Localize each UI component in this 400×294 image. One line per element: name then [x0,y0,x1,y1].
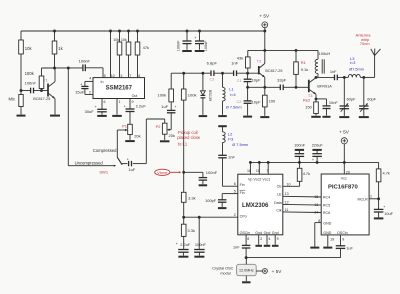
resistor Re2 150 [303,97,318,115]
capacitor 10uF MCLR [374,199,394,218]
pin 16 [314,203,318,207]
inductor L2 pickup [223,126,248,155]
svg-text:3: 3 [120,74,122,78]
svg-text:100nF: 100nF [294,142,306,147]
resistor 4.7k MCLR pullup [376,162,390,198]
svg-text:100: 100 [269,99,276,104]
svg-text:T2: T2 [257,58,262,63]
svg-text:12.0MHz: 12.0MHz [239,269,254,273]
svg-text:100k: 100k [158,93,167,98]
pin 5 [104,74,106,78]
svg-text:4.7k: 4.7k [303,171,310,176]
IC U3 PIC16F870 box [321,174,369,235]
ground crystal module [242,281,251,283]
svg-text:PIC16F870: PIC16F870 [328,184,359,190]
svg-text:Fin: Fin [240,191,245,195]
capacitor trimmer 60pF a [340,77,356,116]
svg-text:100nF: 100nF [177,40,181,51]
junction uncompressed tap [67,67,70,70]
svg-text:1nF: 1nF [330,69,337,74]
junction rail r10k a [118,30,121,33]
pin 15 [314,195,318,199]
wire Vp pin16 [249,162,251,174]
svg-text:Ø 7.5mm: Ø 7.5mm [232,143,248,147]
ground Vtune cap [199,184,208,186]
svg-text:2.2uF: 2.2uF [136,103,147,108]
wire pin1 to ground [116,99,118,115]
svg-text:GND: GND [323,221,331,225]
wire PIC Vcc pin20 [343,162,345,174]
wire Vcc2 pin15 [258,162,260,174]
junction base bias [40,89,43,92]
wire osc distribution [246,257,340,259]
svg-text:100uF: 100uF [204,40,208,51]
antenna whip [356,33,381,56]
svg-text:15uF: 15uF [75,90,85,95]
svg-text:Pickup coil: Pickup coil [178,130,198,135]
svg-text:P1: P1 [122,123,128,128]
svg-text:Uncompressed: Uncompressed [75,160,104,165]
resistor 47k pin8 [135,31,149,78]
transistor T1 BC817-25 [33,68,55,115]
svg-text:1nF: 1nF [231,60,238,65]
svg-text:L1: L1 [229,87,234,92]
svg-text:3.3k: 3.3k [188,196,196,201]
svg-text:4.7k: 4.7k [383,171,390,176]
ground rail cap2 [195,50,205,52]
svg-text:5: 5 [104,74,106,78]
svg-text:16: 16 [314,203,318,207]
capacitor 10nF emitter bypass [316,99,338,116]
svg-text:9: 9 [342,238,344,242]
junction rail cap1 [186,30,189,33]
resistor 10k pin3 [113,31,122,78]
ground 100pF [218,207,227,209]
svg-text:30uF: 30uF [85,109,95,114]
capacitor 30uF pin6 [85,99,107,115]
svg-text:+ 5V: + 5V [259,14,270,19]
svg-text:100nF: 100nF [79,58,91,63]
junction emitter node [246,86,249,89]
pin 7 [129,74,131,78]
junction rail r10k b [127,30,130,33]
transistor T2 BC817-25 [257,50,283,87]
svg-text:19: 19 [330,238,334,242]
svg-text:Out: Out [132,94,138,98]
svg-text:8: 8 [138,74,140,78]
svg-text:t=3: t=3 [350,61,355,65]
pin 7 [266,169,268,173]
wire CPo [184,216,238,218]
pin 4 [89,76,91,80]
svg-text:Fin: Fin [240,183,245,187]
resistor 4.7k CE pullup [297,162,310,186]
wire Fin pin5 [222,194,238,200]
ground varactor [199,115,208,117]
resistor 100k modulation [158,73,174,102]
svg-text:C2: C2 [236,100,241,104]
power +5V crystal [262,269,282,274]
inductor 100uH choke [315,50,330,77]
junction MCLR [377,197,380,200]
svg-text:10k: 10k [121,38,127,42]
junction rail r47k [136,30,139,33]
junction rail pic cap1 [298,161,301,164]
resistor 3.3k loop filter upper [181,192,195,217]
svg-text:70cm: 70cm [360,41,370,46]
svg-text:Ø 7.5mm: Ø 7.5mm [226,106,242,110]
capacitor C4 1nF osc coupling [231,60,241,83]
pin 5 [234,190,236,194]
svg-text:T1: T1 [43,77,48,82]
wire mic to cap [21,90,31,92]
capacitor 1nF output [330,69,337,80]
capacitor 100uF rail decoupling [194,31,208,51]
svg-text:CE: CE [277,184,283,188]
svg-text:1nF: 1nF [228,155,235,160]
capacitor 2.2uF loop filter [176,242,191,256]
junction rail pic cap2 [316,161,319,164]
svg-text:Data: Data [274,201,282,205]
wire Clk to RC6 [283,211,321,214]
svg-text:C1: C1 [237,79,242,83]
microphone Mic [9,91,24,115]
pin 2 [234,213,236,217]
pin 8 gnd [318,219,320,223]
svg-text:10uF: 10uF [384,211,393,216]
ground P1 [125,140,135,142]
wire pin10 from rail [110,31,112,78]
junction top rail / 1k [53,30,56,33]
note crystal osc [212,266,233,275]
capacitor trimmer 60pF b [359,77,377,116]
wire cap to P2 top [133,119,165,164]
junction T2 emitter resistor [263,86,266,89]
svg-text:t=3: t=3 [228,138,233,142]
svg-text:SW1: SW1 [99,170,108,175]
wire Gnd pin2 [258,235,260,245]
svg-text:11: 11 [285,208,289,212]
svg-text:2: 2 [234,213,236,217]
inductor L3 output filter [348,56,364,77]
svg-text:10nF: 10nF [329,100,338,105]
pin 4 gnd [268,237,270,241]
diode D1 varactor BB139 [201,73,212,115]
oscillator crystal module 12.0MHz [237,258,263,276]
junction mic node [20,89,23,92]
svg-text:2: 2 [89,91,91,95]
wire Data to RC5 [283,203,321,206]
svg-text:GND: GND [323,231,331,235]
svg-text:to L1: to L1 [178,141,188,146]
wire 33pF to T3 base [283,86,309,88]
svg-text:RC6: RC6 [323,211,330,215]
switch SW1 compressed/uncompressed [75,148,123,174]
svg-text:modul: modul [220,271,230,275]
capacitor 100nF PIC decoupling [294,142,306,162]
wire MCLR [369,198,379,200]
wire module gnd [245,276,247,282]
svg-text:10pF: 10pF [252,99,261,104]
wire Gnd pin9 [274,235,276,245]
svg-text:Clk: Clk [276,209,281,213]
wire preamp output node y68 [42,67,83,69]
power +5V PIC [339,130,350,163]
ground 30uF [97,115,107,117]
svg-text:Gnd: Gnd [264,231,271,235]
svg-text:10pF: 10pF [252,78,261,83]
resistor 10k pin7 [121,31,131,78]
svg-text:placed close: placed close [177,135,200,140]
svg-text:1: 1 [119,100,121,104]
svg-text:Vcc: Vcc [341,177,347,181]
svg-text:8: 8 [247,237,249,241]
transistor T3 BFR91A [308,78,332,99]
svg-text:1nF: 1nF [233,246,240,250]
svg-text:47k: 47k [143,45,149,50]
svg-text:150: 150 [305,105,312,110]
ground P2 [160,140,170,142]
wire vcc rail [250,161,378,163]
svg-text:20k: 20k [134,133,140,138]
ground 10uF [374,217,384,219]
node Vtune [155,169,182,175]
wire varactor node [171,72,211,74]
wire top supply rail left [21,30,265,32]
junction rail pin10 [109,30,112,33]
wire cap to base [34,90,49,92]
svg-text:6: 6 [104,100,106,104]
pin 6 [234,182,236,186]
svg-text:2: 2 [260,237,262,241]
wire L3 to antenna [360,56,374,78]
svg-text:15: 15 [314,195,318,199]
svg-text:Gnd: Gnd [272,231,279,235]
pin 19 [330,238,334,242]
pin 9 gnd [277,237,279,241]
capacitor 1nF OSCin [233,235,250,258]
pin 9 osc [342,238,344,242]
ground 10nF [323,116,331,118]
capacitor 100nF mic coupling [25,81,37,94]
junction rail 5V stem [263,30,266,33]
capacitor 100nF loop filter [194,217,206,255]
pin 6 [104,100,106,104]
junction varactor top [201,72,204,75]
svg-text:43k: 43k [237,55,243,60]
ground LMX gnd4 [264,245,271,247]
svg-text:1: 1 [370,195,372,199]
svg-text:4: 4 [268,237,270,241]
svg-text:1uF: 1uF [346,247,353,251]
junction vcc rail p7 [267,161,270,164]
pin 8 [138,74,140,78]
svg-text:BC817-25: BC817-25 [33,97,50,101]
IC U2 LMX2306 box [238,174,283,235]
ground trimmer a [339,116,349,118]
ground C2 [243,116,252,118]
svg-text:C3: C3 [209,78,214,82]
wire 5V stem to RF rail [264,31,266,50]
ground Re2 [311,116,321,118]
capacitor C3 6.8pF [207,60,218,81]
capacitor 2.2uF output [124,99,147,125]
svg-text:Compressed: Compressed [93,148,117,153]
capacitor 100nF Vtune filter [184,170,218,184]
svg-text:LMX2306: LMX2306 [242,202,269,209]
svg-text:P2: P2 [156,124,162,129]
svg-text:100k: 100k [188,93,197,98]
svg-text:Crystal OSC: Crystal OSC [212,266,233,270]
pin 8 [247,237,249,241]
svg-text:10: 10 [287,182,291,186]
wire C3 to tank [214,72,234,74]
svg-text:20k: 20k [169,133,175,138]
potentiometer P1 20k [117,123,140,139]
svg-text:LE: LE [277,193,282,197]
capacitor 15uF pins4-2 [75,81,92,94]
svg-text:9.1k: 9.1k [301,67,308,72]
svg-text:2.2uF: 2.2uF [180,242,191,247]
ground L2 top [218,125,227,127]
wire PIC gnd pin19 [327,235,329,247]
svg-text:1uF: 1uF [161,104,168,109]
junction RF rail 5V [263,49,266,52]
svg-text:SSM2167: SSM2167 [106,86,133,92]
pin 2 [89,91,91,95]
wire 1nF to T2 base [237,72,259,74]
junction loop filter [182,216,185,219]
svg-text:100uH: 100uH [319,51,331,56]
svg-text:7: 7 [129,74,131,78]
svg-text:Re2: Re2 [303,97,311,102]
wire to Fin pin6 [223,158,238,186]
junction trimmer2 [362,76,365,79]
ground LMX gnd9 [272,245,279,247]
capacitor 1uF switch coupling [127,158,136,173]
svg-text:13: 13 [285,192,289,196]
junction tank node [221,72,224,75]
note pickup coil [177,130,200,147]
junction rail cap2 [198,30,201,33]
pin 17 [314,211,318,215]
svg-text:17: 17 [314,211,318,215]
wire Gnd pin4 [266,235,268,245]
op-amp U1 SSM2167 box [93,78,145,99]
resistor 100 T2 emitter [263,87,277,116]
ground PIC pin19 [323,247,332,249]
svg-text:60pF: 60pF [367,96,376,101]
pin 1 [370,195,372,199]
pin 9 [132,100,134,104]
wire LE to RC4 [283,195,321,198]
svg-text:Gnd: Gnd [255,231,262,235]
pin 20 [346,170,350,174]
wire collector to 1nF [316,76,335,78]
ground 2.2uF [178,256,188,258]
svg-text:t=4: t=4 [230,93,235,97]
ground T1 emitter [50,115,60,117]
pin 2 gnd [260,237,262,241]
wire CE [283,185,300,187]
ground mic [17,115,26,117]
svg-text:9: 9 [277,237,279,241]
resistor 100k vtune feed [181,73,196,100]
wire PIC gnd pin8 [315,223,321,247]
svg-text:BFR91A: BFR91A [317,85,332,89]
capacitor 1uF OSC1 [336,235,354,258]
svg-text:R1: R1 [301,60,307,65]
junction rail pic vcc [343,161,346,164]
ground L1 [218,115,227,117]
svg-text:100k: 100k [25,71,35,76]
svg-text:OSCin: OSCin [240,231,251,235]
svg-text:6: 6 [234,182,236,186]
junction 100k2 top [182,72,185,75]
svg-text:100pF: 100pF [205,198,217,203]
junction T3 emitter node [315,97,318,100]
svg-text:12: 12 [285,200,289,204]
svg-text:+ 5V: + 5V [339,130,350,135]
ground loop 100nF [194,256,204,258]
capacitor 100nF input coupling [79,58,91,71]
svg-text:100nF: 100nF [25,81,37,86]
pin 16 [247,169,251,173]
svg-text:Vp Vcc2 Vcc1: Vp Vcc2 Vcc1 [248,177,270,181]
svg-text:In: In [101,80,104,84]
capacitor 1uF modulation [161,102,177,113]
capacitor 220uF PIC decoupling [312,142,324,162]
wire RF supply rail [248,49,318,51]
pin 3 [120,74,122,78]
resistor 43k T2 bias [237,50,250,73]
svg-text:9: 9 [132,100,134,104]
pin 13 [285,192,289,196]
svg-text:OSCin: OSCin [337,231,348,235]
pin 15 [256,169,260,173]
resistor 3.3k loop filter lower [181,217,195,249]
capacitor 100nF rail decoupling [177,31,192,51]
svg-text:L2: L2 [228,131,233,136]
svg-text:5: 5 [234,190,236,194]
wire cap to pin5 [85,68,103,78]
resistor 10k mic bias [19,31,33,91]
ground trimmer b [359,116,369,118]
inductor L1 tank [223,73,242,115]
junction trimmer1 [343,76,346,79]
wire Vcc1 pin7 [267,162,269,174]
svg-text:1uF: 1uF [128,167,135,172]
svg-text:RC5: RC5 [323,204,330,208]
potentiometer P2 20k [156,123,175,140]
wire P2 wiper up [170,113,172,130]
svg-text:MCLR: MCLR [358,197,369,201]
svg-text:BC817-25: BC817-25 [265,69,282,73]
svg-text:3.3k: 3.3k [187,228,195,233]
svg-text:100nF: 100nF [206,170,218,175]
wire switch common [122,164,127,165]
svg-text:60pF: 60pF [347,96,356,101]
svg-text:Ø7.5mm: Ø7.5mm [349,67,364,71]
capacitor C1 10pF [244,73,261,87]
junction T3 collector node [315,76,318,79]
svg-text:RC4: RC4 [323,196,330,200]
resistor R1 9.1k [294,50,309,87]
ground emitter resistor [260,116,269,118]
svg-text:Vtune: Vtune [157,170,168,175]
junction loop filter cap [198,216,201,219]
svg-text:33pF: 33pF [277,77,287,82]
